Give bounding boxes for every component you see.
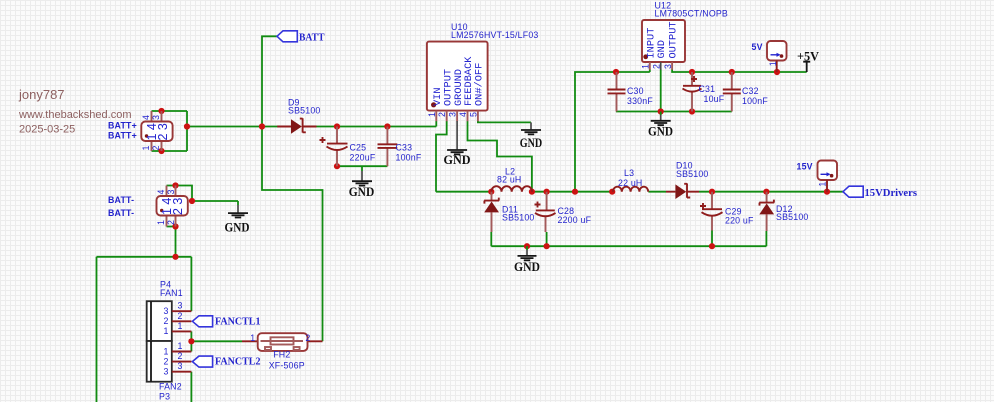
net flag FANCTL2 xyxy=(192,356,260,368)
svg-text:SB5100: SB5100 xyxy=(502,213,535,223)
wire ground return rail xyxy=(491,245,766,247)
diode D10 SB5100 xyxy=(666,161,709,199)
svg-text:C30: C30 xyxy=(627,86,644,96)
svg-text:3: 3 xyxy=(448,112,458,117)
net flag FANCTL1 xyxy=(192,316,260,328)
junction node L2 right xyxy=(529,189,535,195)
svg-text:1: 1 xyxy=(818,182,828,187)
svg-text:1: 1 xyxy=(164,346,169,356)
svg-text:FH2: FH2 xyxy=(273,350,290,360)
svg-text:BATT+: BATT+ xyxy=(108,121,137,131)
svg-text:1: 1 xyxy=(641,64,651,69)
wire BATT+ connector loop to main rail xyxy=(152,111,188,151)
junction node connector P1 bottom xyxy=(158,148,164,154)
ground symbol U10 pin5 xyxy=(520,122,542,150)
junction node L3 left xyxy=(609,189,615,195)
wire U10 pin1 xyxy=(435,121,437,127)
junction node C25 top xyxy=(334,123,340,129)
junction node D12 top xyxy=(763,189,769,195)
junction node conn2 lower xyxy=(172,254,178,260)
junction node BATT drop xyxy=(259,123,265,129)
inductor L3 22uH xyxy=(613,168,648,192)
svg-text:2: 2 xyxy=(652,64,662,69)
capacitor C29 220uF xyxy=(700,192,754,231)
svg-text:4: 4 xyxy=(156,190,166,195)
svg-text:5: 5 xyxy=(468,112,478,117)
junction node connector P2 top xyxy=(172,182,178,188)
svg-text:2200 uF: 2200 uF xyxy=(558,215,592,225)
capacitor C30 330nF xyxy=(608,72,654,112)
svg-text:C32: C32 xyxy=(742,86,759,96)
svg-text:15V: 15V xyxy=(797,162,813,172)
svg-text:ON#/OFF: ON#/OFF xyxy=(474,63,486,106)
wire BATT- to FAN1 pin3 xyxy=(190,257,192,311)
svg-text:2: 2 xyxy=(151,146,161,151)
svg-text:1: 1 xyxy=(156,220,166,225)
svg-text:+5V: +5V xyxy=(797,49,820,64)
junction node U12 gnd xyxy=(658,108,664,114)
svg-text:3: 3 xyxy=(164,306,169,316)
diode D9 SB5100 xyxy=(277,97,320,133)
junction node fan pin1 xyxy=(188,338,194,344)
svg-text:2 3: 2 3 xyxy=(156,123,170,140)
svg-text:SB5100: SB5100 xyxy=(676,169,709,179)
junction node C28 bottom xyxy=(544,243,550,249)
junction node C33 top xyxy=(384,123,390,129)
wire U12 caps bottom rail xyxy=(616,111,732,113)
svg-text:XF-506P: XF-506P xyxy=(269,360,305,370)
svg-text:4: 4 xyxy=(141,115,151,120)
capacitor C28 2200uF xyxy=(535,192,592,232)
capacitor C33 100nF xyxy=(378,127,422,167)
svg-text:2: 2 xyxy=(437,112,447,117)
fuse holder FH2 XF-506P xyxy=(242,333,323,371)
svg-text:1: 1 xyxy=(141,146,151,151)
svg-text:BATT-: BATT- xyxy=(108,195,134,205)
junction node C30 top xyxy=(613,69,619,75)
junction node C31 top xyxy=(689,69,695,75)
svg-text:LM7805CT/NOPB: LM7805CT/NOPB xyxy=(655,9,729,19)
connector P3 FAN2 xyxy=(147,341,192,402)
svg-text:C25: C25 xyxy=(350,143,367,153)
svg-text:1: 1 xyxy=(178,321,183,331)
svg-text:2: 2 xyxy=(164,316,169,326)
svg-text:L3: L3 xyxy=(624,168,634,178)
wire BATT- connector top to GND xyxy=(167,186,239,202)
junction node conn2 right xyxy=(189,198,195,204)
svg-text:2: 2 xyxy=(305,333,310,343)
svg-text:220 uF: 220 uF xyxy=(725,216,754,226)
svg-text:GND: GND xyxy=(520,135,542,150)
svg-text:1: 1 xyxy=(768,61,778,66)
svg-text:GND: GND xyxy=(349,184,375,199)
junction node C32 top xyxy=(729,69,735,75)
svg-text:SB5100: SB5100 xyxy=(288,106,321,116)
junction node connector P2 bottom xyxy=(172,223,178,229)
junction node TP15V xyxy=(824,189,830,195)
svg-text:2: 2 xyxy=(178,351,183,361)
svg-text:330nF: 330nF xyxy=(627,96,653,106)
power symbol +5V xyxy=(797,49,820,73)
svg-text:GND: GND xyxy=(648,124,673,139)
ground symbol near BATT- xyxy=(225,201,250,235)
svg-text:220uF: 220uF xyxy=(350,153,376,163)
svg-text:2: 2 xyxy=(178,311,183,321)
connector X2 BATT- xyxy=(156,186,188,227)
junction node U12 feed xyxy=(572,189,578,195)
svg-text:1: 1 xyxy=(164,326,169,336)
svg-text:82 uH: 82 uH xyxy=(497,175,521,185)
svg-text:15VDrivers: 15VDrivers xyxy=(865,188,918,199)
svg-text:FANCTL2: FANCTL2 xyxy=(215,357,261,368)
junction node C28 top xyxy=(544,189,550,195)
ground symbol under C25 C33 xyxy=(349,166,375,199)
diode D12 SB5100 xyxy=(759,192,808,231)
svg-text:C31: C31 xyxy=(699,84,716,94)
svg-text:3: 3 xyxy=(178,301,183,311)
svg-text:BATT: BATT xyxy=(299,33,325,44)
svg-text:10uF: 10uF xyxy=(704,94,725,104)
junction node main rail at connector xyxy=(184,123,190,129)
wire U10 pin2 to switch rail xyxy=(436,121,447,192)
svg-text:3: 3 xyxy=(663,64,673,69)
wire U10 pin4 feedback xyxy=(468,121,532,192)
op-amp U10 regulator LM2576 xyxy=(427,22,539,122)
junction node D11 xyxy=(488,189,494,195)
ground symbol U10 pin3 xyxy=(444,121,471,167)
svg-text:C33: C33 xyxy=(396,143,413,153)
svg-text:100nF: 100nF xyxy=(396,153,422,163)
wire switch rail xyxy=(436,191,843,193)
junction node C29 bottom xyxy=(709,243,715,249)
wire U12 pin1 stub xyxy=(649,70,651,73)
wire FAN2 pin3 down xyxy=(190,372,192,402)
capacitor C25 220uF xyxy=(320,127,376,167)
BATT net flag xyxy=(277,31,325,44)
svg-text:100nF: 100nF xyxy=(742,96,768,106)
junction node TP5V xyxy=(774,69,780,75)
junction node connector P1 top xyxy=(158,108,164,114)
svg-text:3: 3 xyxy=(151,115,161,120)
svg-text:2: 2 xyxy=(164,356,169,366)
svg-text:3: 3 xyxy=(164,367,169,377)
junction node C25 bottom xyxy=(334,163,340,169)
capacitor C32 100nF xyxy=(723,72,769,112)
inductor L2 82uH xyxy=(491,167,532,192)
IC U12 LM7805 xyxy=(641,0,729,70)
svg-text:jony787: jony787 xyxy=(18,87,65,102)
junction node C29 top xyxy=(709,189,715,195)
wire BATT flag drop xyxy=(262,36,323,341)
diode D11 SB5100 xyxy=(484,192,534,232)
ground symbol return rail xyxy=(514,246,540,274)
svg-text:BATT+: BATT+ xyxy=(108,131,137,141)
svg-text:2025-03-25: 2025-03-25 xyxy=(19,124,75,136)
wire BATT- connector bottom run xyxy=(97,227,192,402)
svg-text:FAN1: FAN1 xyxy=(160,288,183,298)
wire U12 output rail xyxy=(672,70,807,73)
wire FH2 pin1 feed xyxy=(191,340,242,342)
wire D11 C28 bottoms xyxy=(491,232,546,246)
svg-text:GND: GND xyxy=(656,40,668,59)
svg-text:1: 1 xyxy=(178,341,183,351)
wire FAN1 pin1 to FAN2 pin1 xyxy=(190,331,192,351)
test point 5V xyxy=(752,41,787,72)
svg-text:FAN2: FAN2 xyxy=(159,382,182,392)
junction node C31 bottom xyxy=(689,108,695,114)
title block text xyxy=(18,87,132,136)
connector P4 FAN1 xyxy=(147,280,192,342)
svg-text:LM2576HVT-15/LF03: LM2576HVT-15/LF03 xyxy=(451,30,539,40)
svg-text:3: 3 xyxy=(178,361,183,371)
svg-text:BATT-: BATT- xyxy=(108,208,134,218)
junction node GND return xyxy=(524,243,530,249)
svg-text:GND: GND xyxy=(514,259,540,274)
net flag 15VDrivers xyxy=(843,186,917,199)
wire switch node to U12 input xyxy=(575,72,650,192)
test point 15V xyxy=(797,161,838,192)
svg-text:FANCTL1: FANCTL1 xyxy=(215,317,261,328)
svg-text:P3: P3 xyxy=(159,392,170,402)
svg-text:www.thebackshed.com: www.thebackshed.com xyxy=(18,109,132,121)
svg-text:GND: GND xyxy=(444,152,471,167)
svg-text:22 uH: 22 uH xyxy=(618,178,642,188)
wire C25-C33 bottom link xyxy=(337,165,387,167)
svg-text:5V: 5V xyxy=(752,42,763,52)
svg-text:GND: GND xyxy=(225,220,250,235)
ground symbol U12 xyxy=(648,112,673,139)
connector X1 BATT+ xyxy=(141,111,173,151)
svg-text:4: 4 xyxy=(458,112,468,117)
wire C29 D12 bottoms xyxy=(712,231,766,247)
capacitor C31 10uF xyxy=(683,72,725,112)
wire main input rail xyxy=(187,126,436,128)
wire U10 pin5 to GND xyxy=(478,121,531,122)
svg-text:1: 1 xyxy=(427,112,437,117)
svg-text:2 3: 2 3 xyxy=(171,198,185,215)
svg-text:OUTPUT: OUTPUT xyxy=(668,21,680,58)
svg-text:SB5100: SB5100 xyxy=(776,212,809,222)
wire U12 pin2 to bottom xyxy=(660,70,662,112)
svg-text:1: 1 xyxy=(250,333,255,343)
svg-text:2: 2 xyxy=(166,220,176,225)
svg-text:3: 3 xyxy=(166,190,176,195)
